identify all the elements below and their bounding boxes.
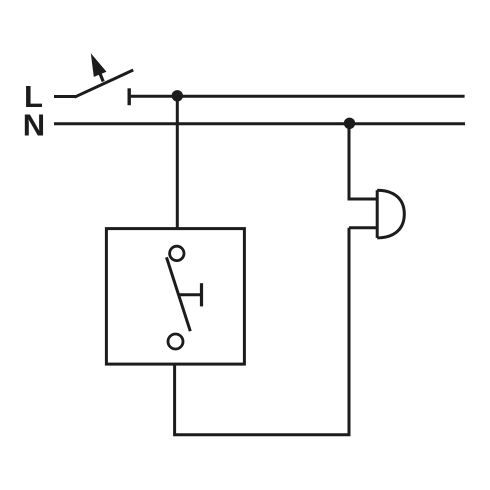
svg-text:N: N (23, 107, 45, 142)
